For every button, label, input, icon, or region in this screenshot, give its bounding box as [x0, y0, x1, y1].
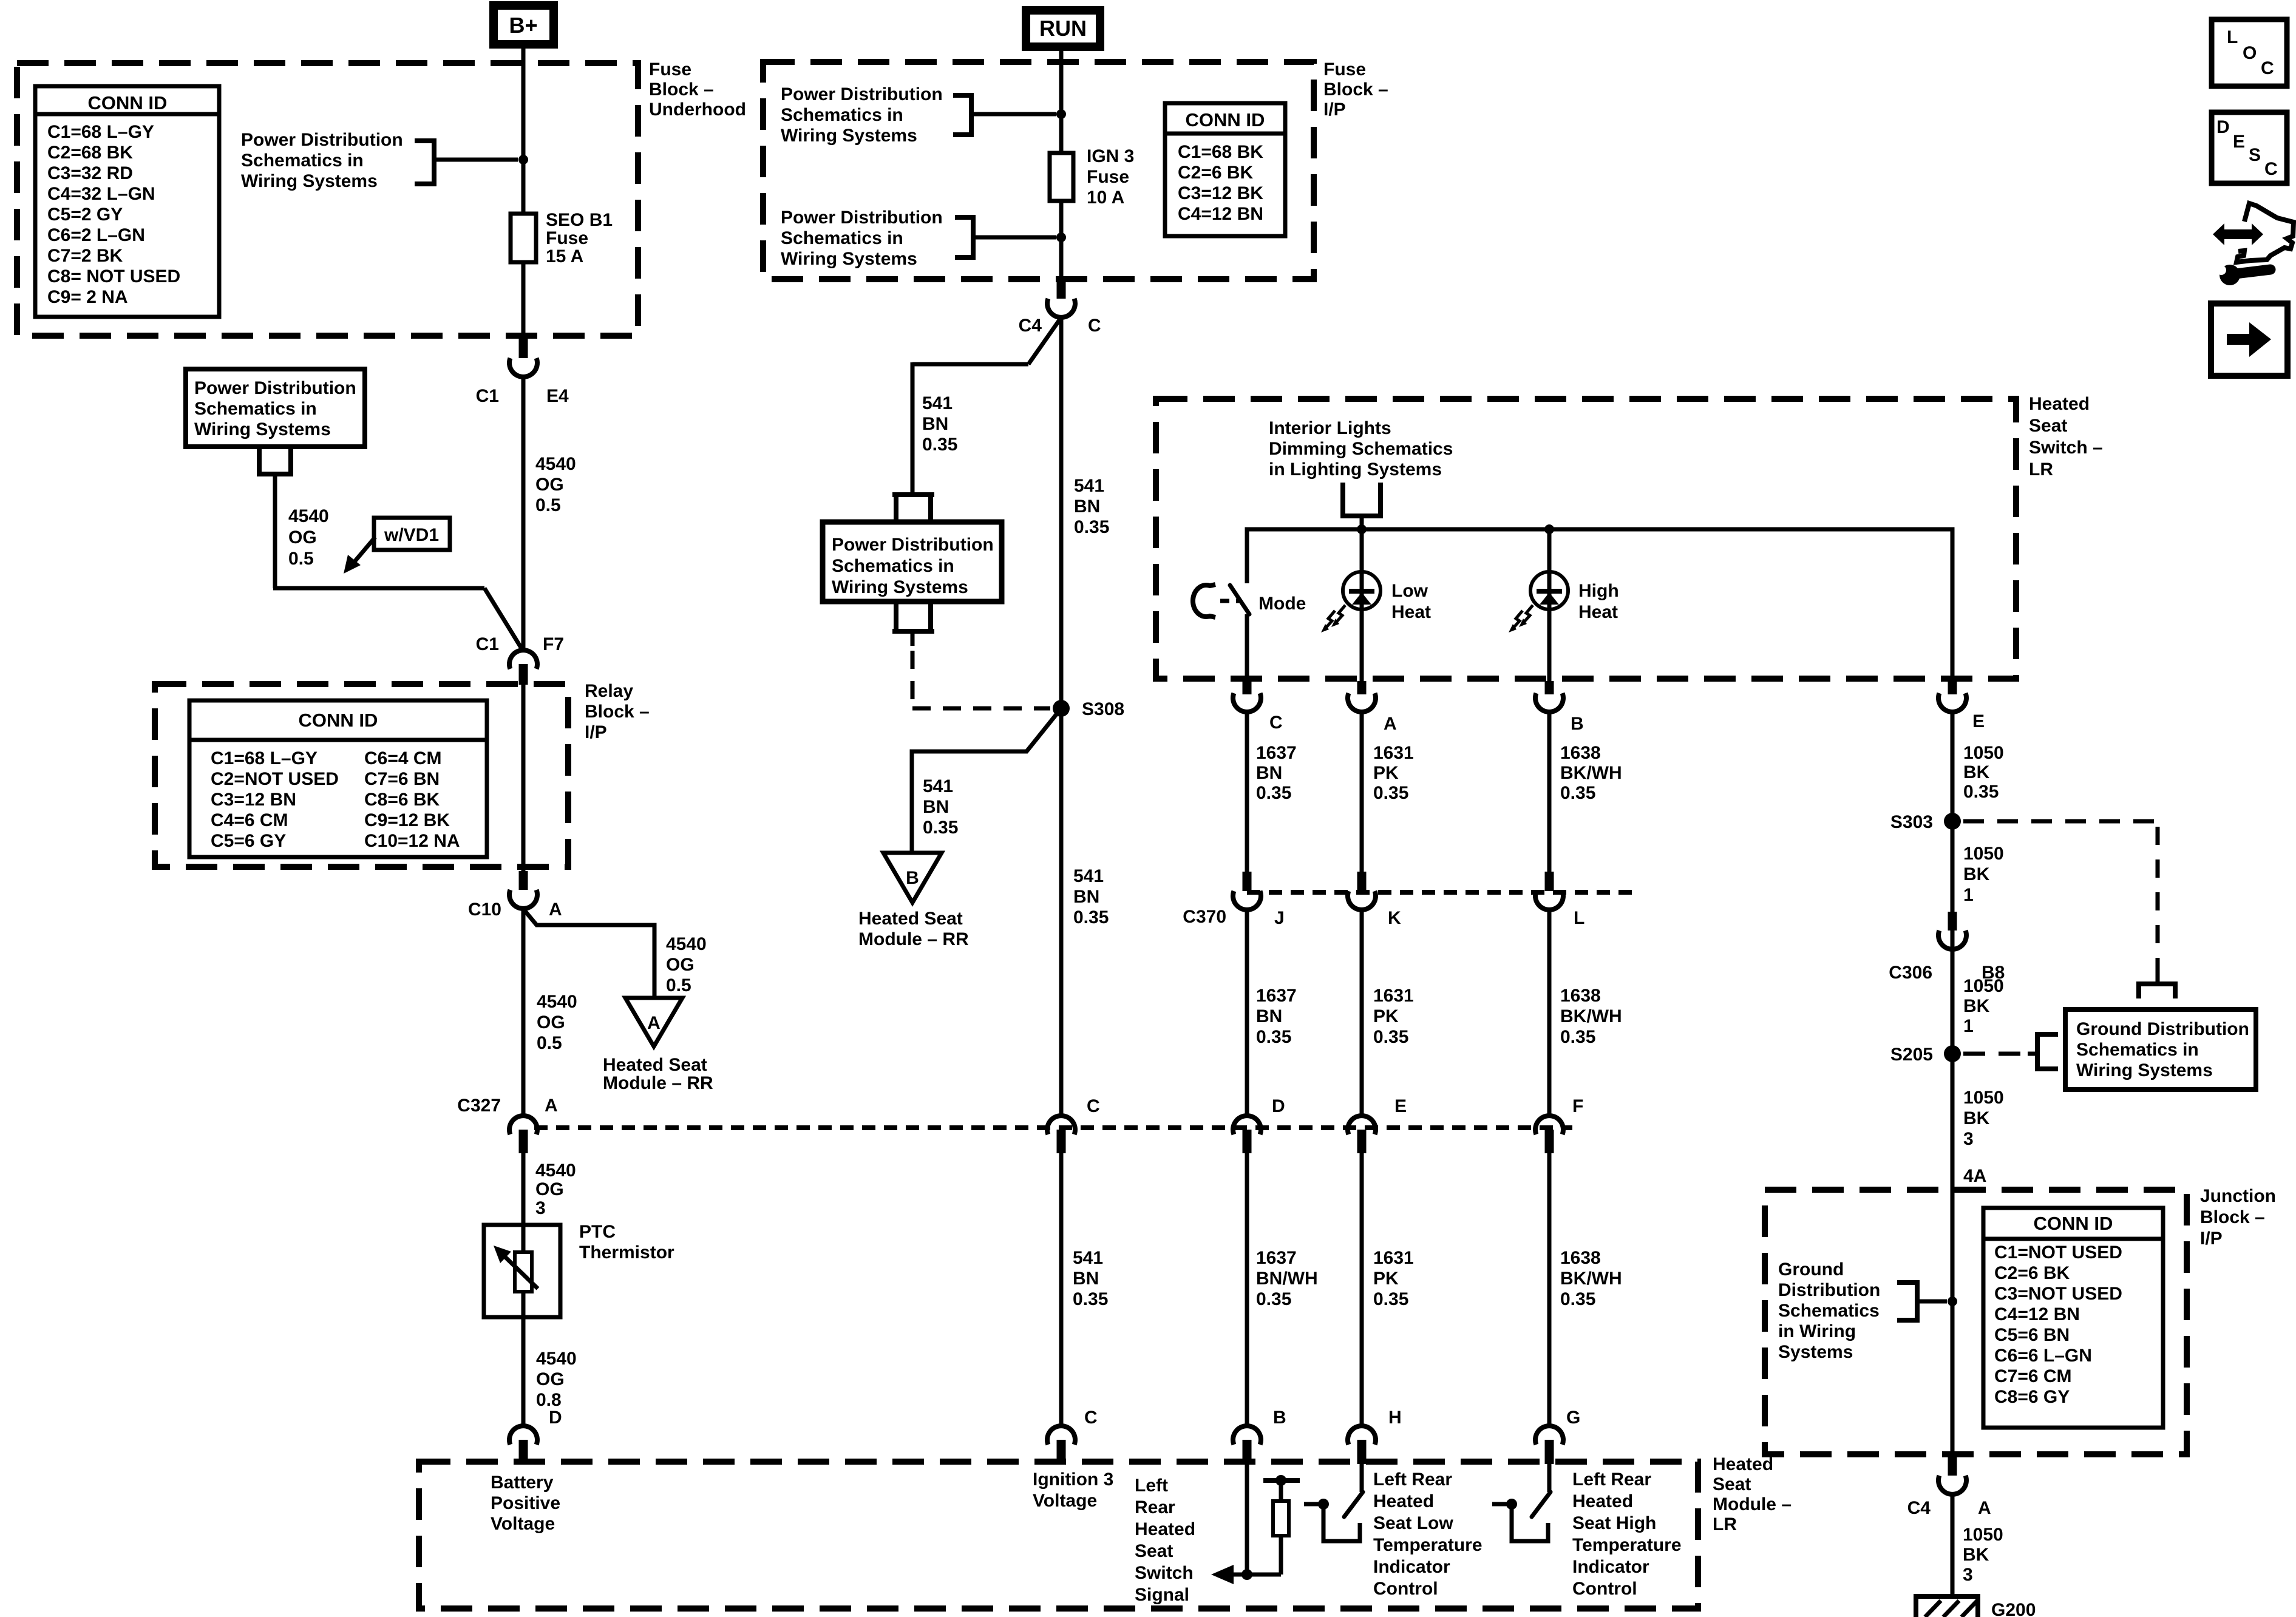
splice S205 [1944, 1045, 1961, 1062]
svg-text:OG: OG [537, 1012, 565, 1032]
svg-text:C1: C1 [476, 634, 499, 654]
svg-text:S308: S308 [1082, 699, 1124, 719]
svg-text:C9= 2 NA: C9= 2 NA [47, 287, 128, 307]
svg-text:OG: OG [288, 527, 317, 547]
svg-text:Mode: Mode [1258, 594, 1306, 614]
svg-text:Heated: Heated [1373, 1491, 1434, 1511]
svg-text:0.35: 0.35 [1373, 1289, 1408, 1309]
svg-text:Ground: Ground [1778, 1259, 1844, 1280]
svg-text:0.35: 0.35 [1373, 1027, 1408, 1047]
svg-text:O: O [2243, 43, 2257, 63]
svg-text:C7=6 BN: C7=6 BN [364, 769, 440, 789]
bracket below reference box [892, 602, 934, 631]
svg-text:C: C [2261, 58, 2274, 78]
icon hand with wrench [2237, 203, 2294, 262]
svg-text:in Lighting Systems: in Lighting Systems [1269, 459, 1442, 480]
svg-text:Heated Seat: Heated Seat [858, 909, 963, 929]
svg-text:BK/WH: BK/WH [1560, 1269, 1622, 1289]
bracket lower [955, 217, 973, 257]
svg-text:K: K [1388, 908, 1401, 928]
mode switch momentary contact [1193, 585, 1215, 617]
connector C4 pin C [1057, 279, 1066, 299]
svg-text:1050: 1050 [1963, 1525, 2003, 1545]
low temp indicator switch [1360, 1464, 1364, 1492]
reference box Power Distribution Schematics (center) [823, 522, 1002, 602]
svg-text:0.35: 0.35 [1074, 517, 1109, 537]
high temp indicator switch [1547, 1464, 1552, 1492]
svg-text:0.35: 0.35 [1256, 783, 1291, 803]
svg-text:Schematics in: Schematics in [832, 556, 954, 576]
svg-text:Power Distribution: Power Distribution [832, 535, 994, 555]
svg-text:A: A [549, 900, 562, 920]
svg-text:Power Distribution: Power Distribution [781, 208, 943, 228]
mode switch blade [1230, 585, 1249, 614]
svg-text:1637: 1637 [1256, 743, 1297, 763]
dashed tie S205 to ground distribution [1963, 1052, 2028, 1056]
wire RUN down [1059, 47, 1064, 153]
svg-text:0.35: 0.35 [923, 818, 958, 838]
svg-text:Block –: Block – [649, 80, 714, 100]
svg-text:F7: F7 [543, 634, 564, 654]
bracket under reference box [257, 447, 293, 474]
svg-text:C4: C4 [1019, 316, 1042, 336]
arrow from w/VD1 [352, 537, 375, 564]
branch wire 541 BN to power distribution reference [1028, 317, 1061, 364]
svg-text:G: G [1566, 1408, 1580, 1428]
svg-text:C2=6 BK: C2=6 BK [1994, 1263, 2070, 1283]
wire B+ down [521, 44, 526, 214]
svg-text:10 A: 10 A [1087, 188, 1124, 208]
connector C4 pin A [1948, 1457, 1957, 1476]
branch to heated seat module RR (B) [912, 708, 1061, 853]
svg-text:541: 541 [923, 776, 953, 796]
svg-text:I/P: I/P [1323, 100, 1346, 120]
svg-text:4540: 4540 [535, 1161, 576, 1181]
svg-text:1637: 1637 [1256, 1248, 1297, 1268]
junction on B+ feed [518, 155, 528, 164]
svg-text:Schematics in: Schematics in [194, 399, 317, 419]
svg-text:C10=12 NA: C10=12 NA [364, 831, 460, 851]
svg-text:4540: 4540 [537, 992, 577, 1012]
reference box Power Distribution Schematics (left) [186, 369, 365, 447]
svg-text:Module –: Module – [1713, 1494, 1792, 1514]
svg-text:Relay: Relay [585, 681, 633, 701]
wire [1360, 1153, 1364, 1425]
svg-text:1638: 1638 [1560, 1248, 1601, 1268]
svg-text:541: 541 [922, 393, 953, 413]
svg-text:F: F [1572, 1096, 1583, 1116]
PTC thermistor [484, 1225, 560, 1317]
svg-text:C1=68 L–GY: C1=68 L–GY [47, 122, 154, 142]
svg-text:Block –: Block – [1323, 80, 1388, 100]
svg-text:1631: 1631 [1373, 986, 1414, 1006]
svg-text:E: E [1394, 1096, 1407, 1116]
LED high heat indicator [1547, 529, 1552, 572]
svg-text:3: 3 [1963, 1565, 1973, 1585]
svg-text:Distribution: Distribution [1778, 1280, 1880, 1300]
svg-text:S303: S303 [1890, 812, 1933, 832]
svg-text:OG: OG [666, 955, 695, 975]
svg-text:BN: BN [923, 797, 949, 817]
CONN ID table (junction block) [1983, 1208, 2163, 1428]
svg-text:0.35: 0.35 [1256, 1289, 1291, 1309]
wire [1245, 910, 1249, 1116]
power terminal RUN [1026, 10, 1100, 47]
wire 1050 BK 3 to G200 [1951, 1494, 1955, 1596]
svg-text:4540: 4540 [536, 1349, 577, 1369]
icon forward arrow [2211, 303, 2288, 376]
svg-text:Schematics in: Schematics in [781, 105, 903, 125]
svg-text:Power Distribution: Power Distribution [241, 130, 403, 150]
svg-text:S: S [2249, 145, 2261, 165]
connector pin B [1545, 681, 1554, 694]
connector C pin (C327 row main wire) [1047, 1116, 1075, 1134]
svg-text:BN: BN [1073, 887, 1099, 907]
relay block I/P dashed outline [155, 684, 568, 867]
connector E [1348, 1116, 1376, 1134]
internal bus wire [1247, 529, 1952, 681]
svg-text:1631: 1631 [1373, 1248, 1414, 1268]
svg-text:Control: Control [1373, 1579, 1438, 1599]
svg-text:A: A [1384, 714, 1397, 734]
svg-text:Module – RR: Module – RR [603, 1073, 713, 1093]
svg-text:C5=2 GY: C5=2 GY [47, 205, 123, 225]
bracket under interior lights [1340, 483, 1383, 516]
svg-text:CONN ID: CONN ID [1186, 109, 1265, 131]
svg-text:B: B [1273, 1408, 1286, 1428]
svg-text:541: 541 [1073, 866, 1104, 886]
wire 4540 OG 0.8 [521, 1317, 526, 1425]
svg-text:Seat: Seat [1135, 1541, 1173, 1561]
svg-text:C: C [1088, 316, 1101, 336]
svg-text:4540: 4540 [288, 506, 329, 526]
svg-text:Seat Low: Seat Low [1373, 1513, 1453, 1533]
wire branch 4540 OG 0.5 to F7 [273, 474, 277, 588]
svg-text:C1=68 BK: C1=68 BK [1178, 142, 1263, 162]
svg-text:C8=6 BK: C8=6 BK [364, 790, 440, 810]
svg-text:I/P: I/P [2200, 1229, 2223, 1249]
wire 541 BN 0.35 to module [1059, 1153, 1064, 1425]
wire [1547, 713, 1552, 872]
svg-text:H: H [1388, 1408, 1402, 1428]
svg-text:Ignition 3: Ignition 3 [1033, 1470, 1113, 1490]
svg-text:0.35: 0.35 [1073, 1289, 1108, 1309]
bracket upper [953, 95, 971, 135]
svg-text:BN: BN [922, 414, 948, 434]
svg-text:E: E [1972, 711, 1985, 731]
svg-text:PK: PK [1373, 1006, 1399, 1026]
svg-text:OG: OG [536, 1369, 565, 1389]
svg-text:B: B [1571, 714, 1584, 734]
svg-text:C6=2 L–GN: C6=2 L–GN [47, 225, 145, 245]
svg-text:Rear: Rear [1135, 1497, 1175, 1517]
svg-text:PK: PK [1373, 763, 1399, 783]
svg-text:1: 1 [1963, 1016, 1974, 1036]
svg-text:Wiring Systems: Wiring Systems [194, 419, 331, 439]
svg-text:Block –: Block – [585, 702, 650, 722]
fuse block underhood dashed outline [17, 63, 638, 336]
svg-text:C4=12 BN: C4=12 BN [1994, 1304, 2080, 1324]
icon DESC [2212, 112, 2287, 183]
wire through relay block [521, 685, 526, 871]
svg-text:A: A [1978, 1498, 1991, 1518]
svg-text:BN/WH: BN/WH [1256, 1269, 1318, 1289]
wire fuse to C1/E4 [521, 262, 526, 337]
icon LOC [2212, 19, 2287, 86]
connector C327 pin A [509, 1116, 537, 1134]
svg-text:0.35: 0.35 [1963, 782, 1999, 802]
svg-text:High: High [1578, 581, 1619, 601]
svg-text:E: E [2233, 132, 2245, 152]
bracket to B+ wire [415, 141, 434, 184]
svg-text:541: 541 [1074, 476, 1104, 496]
svg-text:3: 3 [535, 1198, 546, 1218]
svg-text:Module – RR: Module – RR [858, 929, 969, 949]
svg-text:OG: OG [535, 1179, 564, 1199]
svg-text:Fuse: Fuse [649, 59, 691, 80]
svg-text:C5=6 GY: C5=6 GY [211, 831, 286, 851]
svg-text:B: B [906, 868, 919, 888]
wire [1547, 1153, 1552, 1425]
svg-text:Ground Distribution: Ground Distribution [2076, 1019, 2249, 1039]
svg-text:Block –: Block – [2200, 1207, 2265, 1227]
switch signal circuit [1245, 1464, 1249, 1575]
wire 1050 BK ground path [1951, 713, 1955, 1457]
svg-text:D: D [549, 1408, 562, 1428]
svg-text:1638: 1638 [1560, 743, 1601, 763]
svg-text:I/P: I/P [585, 722, 607, 742]
power terminal B+ [494, 5, 554, 44]
svg-text:LR: LR [2029, 459, 2053, 480]
svg-text:Fuse: Fuse [546, 228, 588, 248]
svg-text:0.35: 0.35 [922, 435, 957, 455]
svg-text:Schematics in: Schematics in [241, 151, 364, 171]
svg-text:Control: Control [1572, 1579, 1637, 1599]
svg-text:Temperature: Temperature [1572, 1535, 1682, 1555]
svg-text:C306: C306 [1889, 963, 1932, 983]
svg-text:1050: 1050 [1963, 1088, 2004, 1108]
svg-text:C1=68 L–GY: C1=68 L–GY [211, 748, 318, 768]
wire mode switch to pin C [1245, 614, 1249, 681]
svg-text:BK/WH: BK/WH [1560, 1006, 1622, 1026]
svg-text:Heated: Heated [2029, 394, 2090, 414]
svg-text:Left Rear: Left Rear [1572, 1470, 1651, 1490]
svg-text:4540: 4540 [535, 454, 576, 474]
svg-text:Switch: Switch [1135, 1563, 1194, 1583]
svg-text:C3=32 RD: C3=32 RD [47, 163, 133, 183]
svg-text:PTC: PTC [579, 1222, 616, 1242]
svg-text:0.35: 0.35 [1256, 1027, 1291, 1047]
reference box Ground Distribution Schematics [2065, 1009, 2256, 1090]
CONN ID table (fuse block underhood) [35, 86, 219, 317]
wire [1245, 1153, 1249, 1425]
svg-text:C2=68 BK: C2=68 BK [47, 143, 133, 163]
svg-text:J: J [1274, 908, 1285, 928]
svg-text:SEO B1: SEO B1 [546, 210, 613, 230]
svg-text:Schematics: Schematics [1778, 1301, 1880, 1321]
svg-text:IGN 3: IGN 3 [1087, 146, 1134, 166]
svg-text:C4=32 L–GN: C4=32 L–GN [47, 184, 155, 204]
svg-text:CONN ID: CONN ID [88, 92, 168, 114]
connector C10 pin A [519, 871, 528, 890]
wire [1360, 910, 1364, 1116]
svg-text:C6=4 CM: C6=4 CM [364, 748, 442, 768]
svg-text:Wiring Systems: Wiring Systems [241, 171, 378, 191]
svg-text:PK: PK [1373, 1269, 1399, 1289]
svg-text:Heat: Heat [1578, 602, 1618, 622]
svg-text:BK/WH: BK/WH [1560, 763, 1622, 783]
svg-text:S205: S205 [1890, 1045, 1933, 1065]
svg-text:Voltage: Voltage [491, 1514, 555, 1534]
svg-text:D: D [2216, 117, 2230, 137]
svg-text:4540: 4540 [666, 934, 707, 954]
svg-text:OG: OG [535, 475, 564, 495]
wire [1360, 713, 1364, 872]
svg-text:CONN ID: CONN ID [2034, 1213, 2113, 1234]
svg-text:0.5: 0.5 [288, 549, 314, 569]
svg-text:3: 3 [1963, 1129, 1974, 1149]
svg-text:Interior Lights: Interior Lights [1269, 418, 1391, 438]
svg-text:Positive: Positive [491, 1493, 560, 1513]
svg-text:C4: C4 [1907, 1498, 1931, 1518]
heated seat switch LR dashed outline [1156, 399, 2016, 679]
svg-text:C6=6 L–GN: C6=6 L–GN [1994, 1346, 2092, 1366]
wire bracket to B+ feed [434, 158, 518, 162]
svg-text:Schematics in: Schematics in [781, 228, 903, 248]
inline harness dashed line C327 row [534, 1125, 1572, 1130]
svg-text:Wiring Systems: Wiring Systems [781, 126, 917, 146]
svg-text:Battery: Battery [491, 1473, 554, 1493]
svg-text:C1=NOT USED: C1=NOT USED [1994, 1242, 2122, 1263]
svg-text:541: 541 [1073, 1248, 1103, 1268]
svg-text:C: C [1084, 1408, 1098, 1428]
svg-text:Thermistor: Thermistor [579, 1242, 674, 1263]
wire 4540 OG 3 [521, 1153, 526, 1225]
svg-text:BN: BN [1074, 497, 1100, 517]
heated seat module LR dashed outline [419, 1462, 1698, 1609]
svg-text:Power Distribution: Power Distribution [194, 378, 356, 398]
svg-text:BN: BN [1256, 763, 1282, 783]
svg-text:BK: BK [1963, 996, 1990, 1016]
svg-text:Wiring Systems: Wiring Systems [832, 577, 968, 597]
mode switch dashed actuator link [1220, 599, 1241, 603]
svg-text:L: L [2227, 27, 2238, 47]
junction lower [1056, 232, 1066, 242]
svg-text:0.35: 0.35 [1560, 1027, 1595, 1047]
svg-text:Wiring Systems: Wiring Systems [2076, 1060, 2213, 1080]
svg-text:Heated: Heated [1572, 1491, 1633, 1511]
svg-text:Voltage: Voltage [1033, 1491, 1097, 1511]
svg-text:Seat: Seat [2029, 416, 2067, 436]
svg-text:C7=2 BK: C7=2 BK [47, 246, 123, 266]
fuse IGN 3 10A [1050, 153, 1073, 201]
svg-text:Wiring Systems: Wiring Systems [781, 249, 917, 269]
svg-text:A: A [647, 1013, 661, 1033]
fuse block I/P dashed outline [763, 62, 1314, 279]
svg-text:1638: 1638 [1560, 986, 1601, 1006]
svg-text:BK: BK [1963, 1108, 1990, 1128]
junction upper [1056, 109, 1066, 119]
svg-text:C370: C370 [1183, 907, 1226, 927]
svg-text:C2=6 BK: C2=6 BK [1178, 163, 1254, 183]
splice S303 [1944, 813, 1961, 830]
svg-text:C: C [1269, 713, 1283, 733]
svg-text:CONN ID: CONN ID [299, 710, 378, 731]
connector H [1348, 1426, 1376, 1445]
junction ground wire [1948, 1297, 1957, 1306]
svg-text:Low: Low [1391, 581, 1428, 601]
bracket ground distribution [1897, 1283, 1917, 1320]
svg-text:Indicator: Indicator [1572, 1557, 1649, 1577]
svg-text:C1: C1 [476, 386, 499, 406]
svg-text:C4=6 CM: C4=6 CM [211, 810, 288, 830]
connector C1 pin F7 [509, 650, 537, 669]
dashed tie to S308 [911, 651, 915, 708]
svg-text:Heated Seat: Heated Seat [603, 1055, 707, 1075]
connector pin J [1243, 872, 1252, 891]
svg-text:Fuse: Fuse [1323, 59, 1366, 80]
wire 4540 OG 0.5 to C327 [521, 909, 526, 1116]
junction low heat [1357, 524, 1367, 534]
svg-text:LR: LR [1713, 1514, 1737, 1534]
svg-text:BN: BN [1073, 1269, 1099, 1289]
svg-text:Signal: Signal [1135, 1585, 1189, 1605]
svg-text:C7=6 CM: C7=6 CM [1994, 1366, 2072, 1386]
connector D [1233, 1116, 1261, 1134]
CONN ID table (fuse block IP) [1165, 103, 1285, 236]
svg-text:BK: BK [1963, 1545, 1989, 1565]
callout w/VD1 [374, 518, 450, 550]
svg-text:C8= NOT USED: C8= NOT USED [47, 266, 180, 286]
wire [1547, 910, 1552, 1116]
svg-text:0.35: 0.35 [1073, 907, 1109, 927]
connector pin L [1545, 872, 1554, 891]
connector pin C [1243, 681, 1252, 694]
connector C1 pin E4 [519, 337, 528, 358]
svg-text:Underhood: Underhood [649, 100, 746, 120]
svg-text:0.5: 0.5 [535, 495, 561, 515]
svg-text:BN: BN [1256, 1006, 1282, 1026]
connector pin A [1357, 681, 1367, 694]
svg-text:Left: Left [1135, 1476, 1168, 1496]
svg-text:Heated: Heated [1713, 1454, 1773, 1474]
svg-text:1637: 1637 [1256, 986, 1297, 1006]
svg-text:Heat: Heat [1391, 602, 1431, 622]
svg-text:Systems: Systems [1778, 1342, 1853, 1362]
svg-text:0.5: 0.5 [537, 1033, 562, 1053]
svg-text:C5=6 BN: C5=6 BN [1994, 1325, 2070, 1345]
svg-text:4A: 4A [1963, 1166, 1986, 1186]
splice S308 [1053, 700, 1070, 717]
svg-text:15 A: 15 A [546, 246, 583, 266]
svg-text:C2=NOT USED: C2=NOT USED [211, 769, 339, 789]
svg-text:w/VD1: w/VD1 [384, 525, 439, 545]
svg-text:1631: 1631 [1373, 743, 1414, 763]
svg-text:1050: 1050 [1963, 976, 2004, 996]
svg-text:C: C [2264, 159, 2278, 179]
svg-text:Left Rear: Left Rear [1373, 1470, 1452, 1490]
off-page triangle B heated seat module RR [883, 853, 942, 903]
svg-text:B+: B+ [509, 13, 537, 38]
svg-text:RUN: RUN [1039, 16, 1087, 41]
svg-text:1050: 1050 [1963, 743, 2004, 763]
svg-text:Seat High: Seat High [1572, 1513, 1656, 1533]
svg-text:0.35: 0.35 [1560, 783, 1595, 803]
svg-text:Temperature: Temperature [1373, 1535, 1483, 1555]
junction high heat [1544, 524, 1554, 534]
svg-text:0.35: 0.35 [1560, 1289, 1595, 1309]
svg-text:Switch –: Switch – [2029, 438, 2103, 458]
